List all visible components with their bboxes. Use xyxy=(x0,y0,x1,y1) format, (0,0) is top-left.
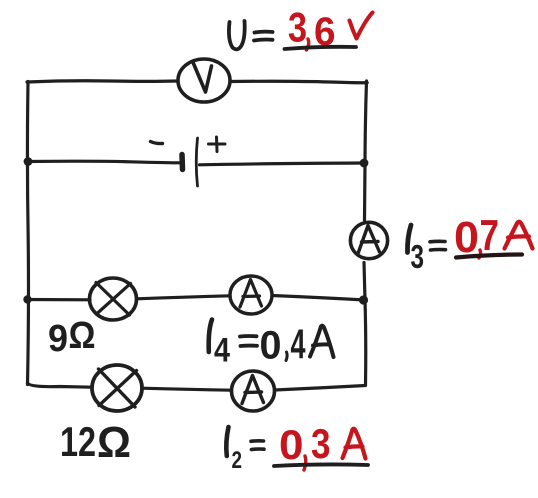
wire branch1 left xyxy=(26,298,90,301)
label I4: letter I xyxy=(209,320,212,353)
wire top-right horizontal xyxy=(230,81,367,83)
ammeter A2 circle xyxy=(232,371,275,411)
svg-text:Ω: Ω xyxy=(69,315,96,357)
label U (letter) xyxy=(229,21,245,49)
equals sign after I2 xyxy=(251,441,264,450)
svg-text:3: 3 xyxy=(411,238,425,275)
voltmeter V1 circle xyxy=(178,59,230,102)
battery minus sign xyxy=(151,142,163,144)
svg-text:12: 12 xyxy=(60,418,96,465)
svg-text:0: 0 xyxy=(260,324,282,368)
comma of 0,7A (red) xyxy=(479,250,481,258)
comma of 0,4 xyxy=(286,352,287,361)
letter A of 0,4 A xyxy=(310,326,334,357)
wire branch2 right xyxy=(275,386,366,391)
wire battery left xyxy=(28,161,180,163)
svg-text:Ω: Ω xyxy=(97,418,131,467)
ammeter A3 letter A xyxy=(358,226,380,254)
label V (red) xyxy=(350,13,373,39)
battery B1 long plate (positive) xyxy=(196,138,197,186)
ammeter A2 letter A xyxy=(242,376,264,404)
lamp L2 cross xyxy=(99,369,137,407)
label I3: letter I xyxy=(407,225,411,253)
ammeter A1 letter A xyxy=(240,280,262,308)
node junction dot left-battery xyxy=(24,157,33,166)
wire branch1 right xyxy=(272,296,365,301)
wire left vertical xyxy=(27,82,28,385)
letter A of 0,7A (red) xyxy=(505,222,533,249)
label I2: letter I xyxy=(226,427,228,456)
svg-text:7: 7 xyxy=(480,211,500,260)
svg-text:4: 4 xyxy=(214,332,230,370)
svg-text:3: 3 xyxy=(311,420,331,467)
equals sign after I4 xyxy=(240,336,257,346)
letter A of 0,3 A (red) xyxy=(343,429,366,459)
wire right vertical lower xyxy=(364,263,366,386)
lamp L1 circle xyxy=(90,278,137,320)
voltmeter V1 letter V xyxy=(194,64,212,93)
wire branch1 middle xyxy=(137,296,231,299)
svg-text:3: 3 xyxy=(288,4,307,51)
lamp L2 circle xyxy=(92,365,142,411)
underline under 0,7A xyxy=(456,255,522,258)
wire battery right xyxy=(200,163,365,165)
ammeter A3 circle xyxy=(350,222,387,258)
battery plus sign xyxy=(209,137,226,152)
lamp L1 cross xyxy=(96,283,131,316)
comma of 3,6 (red) xyxy=(307,39,309,50)
wire branch2 left xyxy=(28,383,93,387)
wire branch2 middle xyxy=(142,388,232,390)
svg-text:2: 2 xyxy=(232,447,243,474)
underline under 3,6 xyxy=(285,47,357,49)
comma of 0,3 (red) xyxy=(304,456,306,470)
node junction dot right-branch1 xyxy=(359,295,368,304)
ammeter A1 circle xyxy=(230,276,272,314)
svg-text:9: 9 xyxy=(48,318,68,360)
underline under 0,3 A xyxy=(274,464,368,466)
wire right vertical upper xyxy=(365,81,367,221)
wire top-left horizontal xyxy=(27,81,178,82)
battery B1 short plate (negative) xyxy=(179,155,185,170)
svg-text:4: 4 xyxy=(291,321,306,368)
equals sign after I3 xyxy=(430,241,446,250)
equals sign after U xyxy=(254,32,273,41)
node junction dot left-branch1 xyxy=(23,295,31,303)
node junction dot right-battery xyxy=(360,159,369,168)
svg-text:0: 0 xyxy=(279,421,304,468)
